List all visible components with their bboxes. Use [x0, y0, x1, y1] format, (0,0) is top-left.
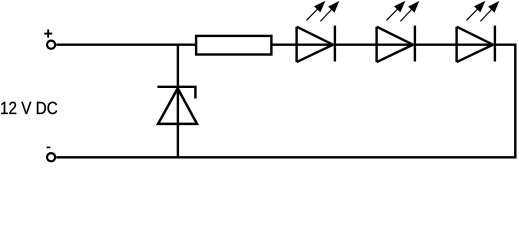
- zener diode triangle: [158, 88, 197, 124]
- plus sign: [44, 30, 52, 38]
- led D2 arrow b: [400, 1, 419, 22]
- wire zener branch: [177, 45, 179, 158]
- minus sign: [47, 146, 51, 148]
- zener diode cathode bar: [157, 87, 195, 99]
- led D1 arrow b: [320, 1, 339, 22]
- wire bottom rail: [56, 156, 516, 158]
- led D2 triangle: [377, 27, 413, 62]
- led D3 arrow b: [480, 1, 499, 22]
- led D1 arrow a: [306, 1, 325, 21]
- led D3 triangle: [457, 27, 493, 62]
- led D3 arrow a: [466, 1, 485, 21]
- led D2 cathode bar: [414, 26, 416, 62]
- wire right side: [514, 44, 516, 159]
- wire top rail right: [271, 44, 516, 46]
- led D1 cathode bar: [334, 26, 336, 62]
- led D3 cathode bar: [494, 26, 496, 62]
- resistor: [196, 36, 271, 55]
- label 12 V DC: [1, 102, 57, 114]
- led D1 triangle: [297, 27, 333, 62]
- led D2 arrow a: [386, 1, 405, 21]
- terminal minus: [47, 153, 55, 161]
- terminal plus: [47, 41, 55, 49]
- wire top rail left: [56, 44, 196, 46]
